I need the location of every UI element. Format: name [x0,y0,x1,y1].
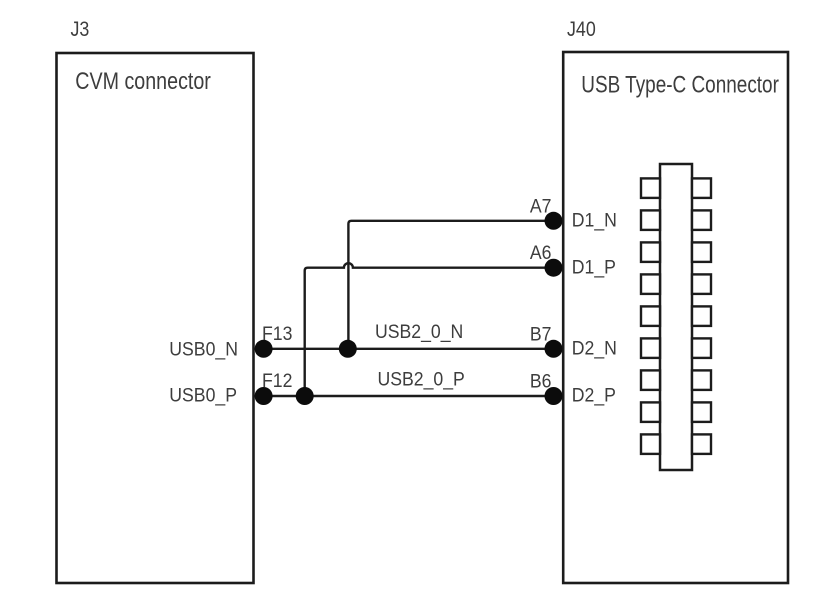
junction dot pin B6 at J40 edge [545,387,563,405]
svg-text:A7: A7 [530,195,552,217]
pin row 9 right [692,434,711,454]
pin row 1 left [641,178,660,198]
svg-text:B6: B6 [530,370,552,392]
svg-text:D2_P: D2_P [572,384,616,407]
svg-text:J3: J3 [71,18,90,42]
pin row 6 right [692,338,711,358]
pin row 4 right [692,274,711,294]
connector J40 box (USB Type-C Connector) [563,52,788,583]
junction dot net USB2_0_N branch [339,340,357,358]
svg-text:J40: J40 [567,18,596,42]
pin row 9 left [641,434,660,454]
svg-text:A6: A6 [530,241,552,263]
svg-text:USB Type-C Connector: USB Type-C Connector [581,70,779,98]
pin row 4 left [641,274,660,294]
pin row 3 left [641,242,660,262]
svg-text:D1_N: D1_N [572,209,617,232]
wire USB0_N horizontal (F13 to B7) [255,348,554,350]
junction dot pin B7 at J40 edge [545,340,563,358]
pin row 5 right [692,306,711,326]
svg-text:D1_P: D1_P [572,256,616,279]
wire USB0_P horizontal (F12 to B6) [255,395,554,397]
pin row 2 right [692,210,711,230]
pin row 6 left [641,338,660,358]
wire branch to D1_P (vertical riser + horizontal with hop) [305,263,554,396]
junction dot pin F12 at J3 edge [255,387,273,405]
junction dot net USB2_0_P branch [296,387,314,405]
junction dot pin F13 at J3 edge [255,340,273,358]
pin row 7 right [692,370,711,390]
pin row 3 right [692,242,711,262]
svg-text:USB2_0_P: USB2_0_P [378,368,465,391]
wire branch to D1_N (vertical riser + horizontal) [348,221,553,349]
pin row 5 left [641,306,660,326]
svg-text:F12: F12 [262,369,292,391]
USB-C symbol body [660,164,692,470]
svg-text:USB2_0_N: USB2_0_N [375,320,463,343]
pin row 8 left [641,402,660,422]
pin row 2 left [641,210,660,230]
svg-text:D2_N: D2_N [572,337,617,360]
pin row 8 right [692,402,711,422]
connector J3 box (CVM connector) [57,53,254,583]
pin row 7 left [641,370,660,390]
svg-text:F13: F13 [262,322,292,344]
svg-text:CVM connector: CVM connector [75,67,211,94]
pin row 1 right [692,178,711,198]
junction dot pin A6 at J40 edge [545,259,563,277]
svg-text:USB0_P: USB0_P [169,384,237,407]
svg-text:USB0_N: USB0_N [169,338,238,361]
svg-text:B7: B7 [530,323,552,345]
junction dot pin A7 at J40 edge [545,212,563,230]
